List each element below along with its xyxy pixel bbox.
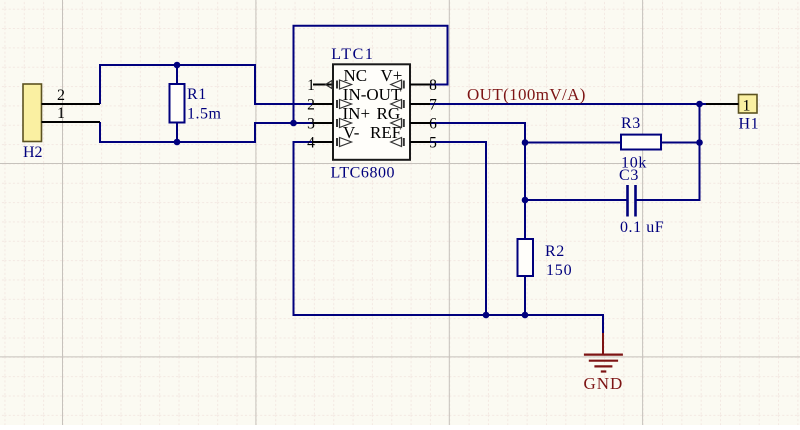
svg-text:NC: NC (344, 66, 368, 85)
svg-text:6: 6 (429, 116, 437, 133)
junction REF at ground rail (483, 312, 490, 319)
pin 4 V- (307, 123, 401, 152)
wire RG node to C3 (525, 199, 627, 201)
op-amp U1 LTC6800 body (333, 64, 410, 160)
wire H2 pin2 to IC pin2 (-IN net top rail) (100, 65, 313, 104)
svg-text:3: 3 (307, 116, 315, 133)
svg-text:4: 4 (307, 135, 315, 152)
svg-text:1: 1 (57, 105, 65, 122)
resistor R1 (176, 65, 178, 84)
resistor R2 (518, 239, 534, 276)
svg-text:LTC6800: LTC6800 (331, 165, 396, 182)
svg-text:150: 150 (546, 262, 572, 279)
power port GND (584, 333, 624, 393)
junction R1 top (174, 62, 181, 69)
svg-text:V-: V- (343, 123, 360, 142)
svg-text:R1: R1 (187, 86, 207, 103)
connector H1 body (739, 95, 758, 114)
pin 2 -IN (307, 85, 402, 113)
svg-text:1.5m: 1.5m (187, 106, 222, 123)
junction R1 bottom (174, 139, 181, 146)
svg-text:R3: R3 (621, 115, 641, 132)
junction RG node at C3 row (522, 197, 529, 204)
junction OUT node at R3 row (696, 139, 703, 146)
pin 1 of H2 (42, 121, 101, 123)
svg-text:8: 8 (429, 77, 437, 94)
svg-text:1: 1 (743, 98, 751, 115)
resistor R3 (621, 135, 661, 150)
wire REF pin5 to ground rail (430, 142, 486, 315)
pin 2 of H2 (42, 103, 101, 105)
wire RG node to R3 (525, 142, 621, 144)
svg-text:GND: GND (584, 374, 624, 393)
svg-text:H2: H2 (23, 144, 43, 161)
wire H2 pin1 to IC pin3 (+IN net bottom rail) (100, 122, 313, 142)
svg-text:2: 2 (57, 87, 65, 104)
svg-text:R2: R2 (545, 243, 565, 260)
connector H2 body (23, 84, 42, 142)
svg-text:H1: H1 (739, 116, 760, 133)
svg-text:1: 1 (307, 77, 315, 94)
svg-text:LTC1: LTC1 (331, 46, 374, 63)
svg-text:7: 7 (429, 97, 437, 114)
svg-text:5: 5 (429, 135, 437, 152)
junction OUT node at OUT wire (696, 101, 703, 108)
svg-text:V+: V+ (381, 66, 403, 85)
pin 1 NC (307, 66, 367, 94)
pin 5 REF (391, 135, 437, 152)
wire RG pin6 down to R2 top (430, 123, 525, 239)
svg-text:IN-OUT: IN-OUT (343, 85, 402, 104)
capacitor C3 (626, 185, 629, 217)
wire R2 bottom to ground rail (524, 276, 526, 315)
svg-text:OUT(100mV/A): OUT(100mV/A) (467, 85, 586, 104)
wire OUT pin7 to H1 (430, 103, 720, 105)
wire V+ loop pin8 to +IN node (294, 26, 448, 123)
wire R3 to OUT node (661, 142, 700, 144)
pin 6 RG (391, 116, 437, 133)
svg-text:IN+: IN+ (343, 104, 371, 123)
pin 3 +IN (307, 104, 400, 133)
pin 8 V+ (381, 66, 438, 94)
junction RG node at R3 row (522, 139, 529, 146)
svg-text:C3: C3 (619, 167, 639, 184)
wire C3 to OUT vertical (637, 104, 700, 200)
junction +IN node (290, 120, 297, 127)
pin 1 of H1 (706, 103, 739, 105)
junction R2 at ground rail (522, 312, 529, 319)
wire V- pin4 to ground rail (294, 142, 604, 334)
pin 7 OUT (391, 97, 437, 114)
svg-text:0.1 uF: 0.1 uF (620, 219, 664, 236)
svg-text:2: 2 (307, 97, 315, 114)
